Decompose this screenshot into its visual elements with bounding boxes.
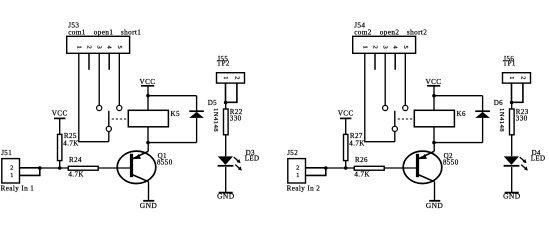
wire LED to ground bbox=[225, 167, 227, 192]
wire pin4 stub of J53 bbox=[108, 53, 110, 70]
wire coil top to diode bbox=[434, 95, 483, 97]
svg-text:com2: com2 bbox=[354, 29, 372, 37]
resistor R26 4.7K bbox=[354, 156, 384, 178]
wire J51 pin2 bbox=[20, 167, 40, 169]
relay actuation dashed link bbox=[112, 118, 129, 120]
ground GND (transistor) bbox=[426, 201, 444, 210]
wire coil top bbox=[433, 96, 435, 111]
svg-text:330: 330 bbox=[230, 115, 242, 123]
svg-text:2: 2 bbox=[233, 76, 240, 80]
wire pin5 short1 bbox=[118, 53, 120, 105]
svg-text:8550: 8550 bbox=[443, 159, 459, 167]
wire pin1 com1 to relay common bbox=[79, 53, 109, 142]
wire base bbox=[384, 167, 416, 169]
svg-text:R26: R26 bbox=[355, 156, 368, 164]
node test point junction bbox=[510, 101, 514, 105]
node coil top bbox=[146, 94, 150, 98]
svg-text:J52: J52 bbox=[287, 149, 298, 157]
svg-text:LED: LED bbox=[531, 154, 546, 162]
wire collector bbox=[147, 143, 149, 152]
svg-text:open2: open2 bbox=[380, 29, 400, 37]
wire J55 pin2 bbox=[226, 83, 237, 102]
svg-text:short2: short2 bbox=[407, 29, 427, 37]
svg-text:1: 1 bbox=[361, 45, 368, 49]
svg-text:4.7K: 4.7K bbox=[63, 139, 78, 147]
wire emitter bbox=[148, 182, 150, 201]
connector J56 (TP1) bbox=[503, 55, 531, 83]
svg-text:2: 2 bbox=[10, 164, 14, 171]
svg-text:1: 1 bbox=[222, 76, 229, 80]
node test point junction bbox=[224, 101, 228, 105]
relay contact open1 bbox=[97, 105, 102, 110]
wire base bbox=[98, 167, 130, 169]
connector J55 (TP2) bbox=[217, 55, 245, 83]
wire input to base resistor bbox=[40, 167, 69, 169]
svg-text:J51: J51 bbox=[1, 149, 12, 157]
svg-text:1N4148: 1N4148 bbox=[498, 108, 505, 132]
svg-text:GND: GND bbox=[140, 201, 158, 210]
connector J52 (Realy In 2) bbox=[287, 149, 321, 193]
svg-text:VCC: VCC bbox=[52, 110, 68, 118]
wire coil bottom bbox=[147, 127, 149, 143]
svg-text:4.7K: 4.7K bbox=[68, 170, 83, 178]
wire LED to ground bbox=[511, 167, 513, 192]
relay coil K5 bbox=[128, 110, 180, 127]
svg-text:4: 4 bbox=[392, 45, 399, 49]
connector J54 (com2 open2 short2) bbox=[353, 21, 428, 53]
relay contact short2 bbox=[403, 105, 408, 110]
svg-text:5: 5 bbox=[402, 45, 409, 49]
LED D4 bbox=[504, 149, 546, 171]
svg-text:TP1: TP1 bbox=[503, 60, 516, 68]
relay contact short1 bbox=[117, 105, 122, 110]
resistor R25 4.7K bbox=[58, 132, 79, 168]
wire resistor to LED bbox=[225, 135, 227, 157]
wire J55 pin1 bbox=[225, 83, 227, 102]
power VCC (input pull-up) bbox=[52, 110, 68, 135]
svg-text:1: 1 bbox=[508, 76, 515, 80]
svg-text:short1: short1 bbox=[121, 29, 141, 37]
svg-text:1N4148: 1N4148 bbox=[212, 108, 219, 132]
relay armature bbox=[106, 111, 111, 142]
transistor Q2 8550 PNP bbox=[403, 151, 458, 183]
resistor R23 330 bbox=[510, 108, 529, 135]
svg-text:open1: open1 bbox=[94, 29, 114, 37]
wire J51 pin1 bbox=[20, 168, 40, 176]
svg-text:GND: GND bbox=[426, 201, 444, 210]
wire pin1 com2 to relay common bbox=[365, 53, 395, 142]
svg-text:2: 2 bbox=[372, 45, 379, 49]
wire J56 pin2 bbox=[512, 83, 523, 102]
wire J52 pin1 bbox=[306, 168, 326, 176]
svg-text:330: 330 bbox=[516, 115, 528, 123]
wire pin5 short2 bbox=[404, 53, 406, 105]
svg-text:Realy In 2: Realy In 2 bbox=[287, 185, 321, 193]
node input junction bbox=[324, 166, 328, 170]
wire emitter bbox=[434, 182, 436, 201]
node coil bottom bbox=[146, 141, 150, 145]
svg-text:1: 1 bbox=[296, 172, 300, 179]
svg-text:2: 2 bbox=[296, 164, 300, 171]
relay armature bbox=[392, 111, 397, 142]
wire pin2 stub of J53 bbox=[88, 53, 90, 70]
wire coil bottom bbox=[433, 127, 435, 143]
wire coil bottom to diode bbox=[434, 142, 483, 144]
resistor R27 4.7K bbox=[344, 132, 365, 168]
diode D6 1N4148 bbox=[475, 96, 505, 143]
svg-text:3: 3 bbox=[96, 45, 103, 49]
wire pin3 open1 bbox=[98, 53, 100, 105]
wire pin2 stub of J54 bbox=[374, 53, 376, 70]
connector J51 (Realy In 1) bbox=[1, 149, 35, 193]
svg-text:K5: K5 bbox=[171, 110, 180, 118]
svg-text:D6: D6 bbox=[494, 99, 503, 107]
node pull-up junction bbox=[344, 166, 348, 170]
svg-text:TP2: TP2 bbox=[217, 60, 230, 68]
svg-text:LED: LED bbox=[245, 154, 260, 162]
relay coil K6 bbox=[414, 110, 466, 127]
node coil bottom bbox=[432, 141, 436, 145]
wire coil top to diode bbox=[148, 95, 197, 97]
wire collector bbox=[433, 143, 435, 152]
svg-text:4: 4 bbox=[106, 45, 113, 49]
svg-text:Realy In 1: Realy In 1 bbox=[1, 185, 35, 193]
wire to LED resistor bbox=[511, 103, 513, 110]
svg-text:5: 5 bbox=[116, 45, 123, 49]
svg-text:3: 3 bbox=[382, 45, 389, 49]
relay contact open2 bbox=[383, 105, 388, 110]
svg-text:2: 2 bbox=[86, 45, 93, 49]
node pull-up junction bbox=[58, 166, 62, 170]
node coil top bbox=[432, 94, 436, 98]
transistor Q1 8550 PNP bbox=[117, 151, 172, 183]
svg-text:4.7K: 4.7K bbox=[354, 170, 369, 178]
resistor R22 330 bbox=[224, 108, 243, 135]
svg-text:GND: GND bbox=[217, 192, 235, 201]
relay actuation dashed link bbox=[398, 118, 415, 120]
wire to LED resistor bbox=[225, 103, 227, 110]
svg-text:com1: com1 bbox=[68, 29, 86, 37]
svg-text:R24: R24 bbox=[69, 156, 82, 164]
wire input to base resistor bbox=[326, 167, 355, 169]
svg-text:VCC: VCC bbox=[338, 110, 354, 118]
svg-text:2: 2 bbox=[519, 76, 526, 80]
resistor R24 4.7K bbox=[68, 156, 98, 178]
svg-text:8550: 8550 bbox=[157, 159, 173, 167]
node input junction bbox=[38, 166, 42, 170]
svg-text:GND: GND bbox=[503, 192, 521, 201]
ground GND (LED) bbox=[503, 192, 521, 201]
ground GND (LED) bbox=[217, 192, 235, 201]
svg-text:K6: K6 bbox=[457, 110, 466, 118]
wire J56 pin1 bbox=[511, 83, 513, 102]
wire resistor to LED bbox=[511, 135, 513, 157]
diode D5 1N4148 bbox=[189, 96, 219, 143]
wire J52 pin2 bbox=[306, 167, 326, 169]
svg-text:1: 1 bbox=[75, 45, 82, 49]
connector J53 (com1 open1 short1) bbox=[67, 21, 142, 53]
wire pin3 open2 bbox=[384, 53, 386, 105]
power VCC (relay coil) bbox=[426, 78, 442, 96]
svg-text:4.7K: 4.7K bbox=[349, 139, 364, 147]
wire coil bottom to diode bbox=[148, 142, 197, 144]
svg-text:1: 1 bbox=[10, 172, 14, 179]
svg-text:D5: D5 bbox=[208, 99, 217, 107]
power VCC (relay coil) bbox=[140, 78, 156, 96]
ground GND (transistor) bbox=[140, 201, 158, 210]
power VCC (input pull-up) bbox=[338, 110, 354, 135]
wire coil top bbox=[147, 96, 149, 111]
wire pin4 stub of J54 bbox=[394, 53, 396, 70]
LED D3 bbox=[218, 149, 260, 171]
